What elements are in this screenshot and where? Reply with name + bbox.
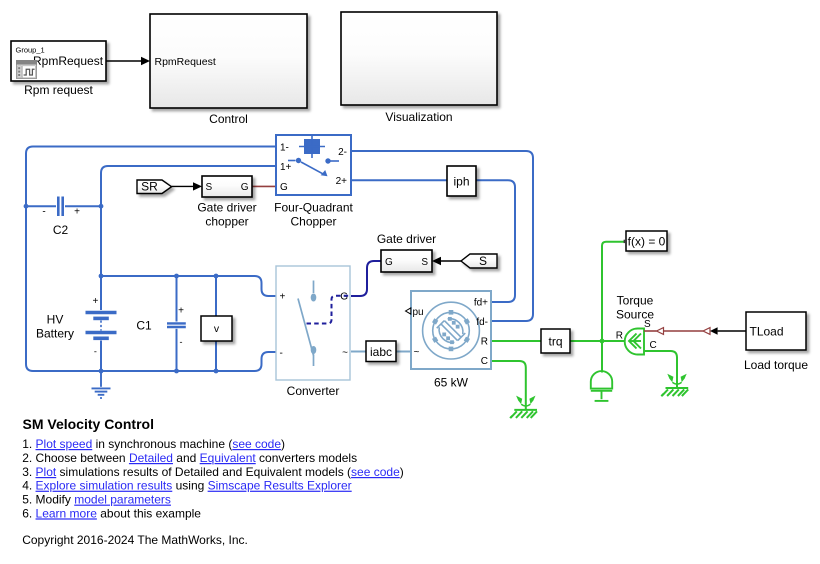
svg-text:+: + [280,292,286,303]
svg-text:v: v [214,323,220,335]
svg-text:S: S [421,257,428,268]
svg-text:-: - [280,348,283,359]
svg-text:R: R [616,331,623,342]
svg-text:G: G [340,292,348,303]
svg-text:RpmRequest: RpmRequest [155,56,216,68]
svg-text:-: - [42,207,45,218]
svg-text:5. Modify model parameters: 5. Modify model parameters [22,493,171,507]
svg-text:+: + [92,296,98,307]
svg-text:S: S [206,182,213,193]
svg-text:S: S [479,254,487,268]
svg-text:Gate driver: Gate driver [197,201,256,215]
svg-text:trq: trq [548,334,562,348]
svg-text:1. Plot speed in synchronous m: 1. Plot speed in synchronous machine (se… [22,437,285,451]
svg-text:RpmRequest: RpmRequest [33,54,104,68]
svg-text:R: R [481,337,488,348]
svg-text:Converter: Converter [287,384,340,398]
svg-text:1-: 1- [280,143,289,154]
svg-text:iabc: iabc [370,345,392,359]
svg-text:+: + [178,306,184,317]
svg-text:G: G [241,182,249,193]
svg-text:iph: iph [453,175,469,189]
svg-text:G: G [385,257,393,268]
svg-text:~: ~ [342,348,348,359]
svg-text:1+: 1+ [280,162,292,173]
svg-text:Load torque: Load torque [744,358,808,372]
svg-text:SM Velocity Control: SM Velocity Control [23,416,154,432]
svg-text:fd-: fd- [476,317,488,328]
svg-text:C1: C1 [136,319,152,333]
svg-text:Battery: Battery [36,327,74,341]
svg-text:Control: Control [209,112,248,126]
svg-text:C: C [650,340,657,351]
svg-text:Source: Source [616,308,654,322]
svg-text:2-: 2- [338,147,347,158]
svg-text:65 kW: 65 kW [434,376,469,390]
svg-text:Chopper: Chopper [290,215,336,229]
svg-text:C2: C2 [53,223,69,237]
svg-text:HV: HV [47,313,64,327]
svg-text:Copyright 2016-2024 The MathWo: Copyright 2016-2024 The MathWorks, Inc. [22,533,248,547]
svg-text:-: - [94,347,97,357]
svg-text:Gate driver: Gate driver [377,232,436,246]
svg-text:SR: SR [141,180,158,194]
svg-text:6. Learn more about this examp: 6. Learn more about this example [22,506,201,520]
svg-text:TLoad: TLoad [750,324,784,338]
svg-text:+: + [74,207,80,218]
svg-text:C: C [481,356,488,367]
svg-text:pu: pu [413,307,424,318]
svg-text:Four-Quadrant: Four-Quadrant [274,201,353,215]
svg-text:-: - [180,337,183,347]
svg-text:fd+: fd+ [474,298,488,309]
svg-text:3. Plot simulations results of: 3. Plot simulations results of Detailed … [22,465,404,479]
svg-text:chopper: chopper [205,215,248,229]
svg-text:~: ~ [414,347,420,358]
svg-text:2. Choose between Detailed and: 2. Choose between Detailed and Equivalen… [22,451,357,465]
svg-text:2+: 2+ [336,176,348,187]
svg-text:f(x) = 0: f(x) = 0 [628,235,666,249]
svg-text:Torque: Torque [617,294,654,308]
svg-text:G: G [280,182,288,193]
svg-text:Rpm request: Rpm request [24,83,93,97]
svg-text:Visualization: Visualization [385,110,452,124]
svg-text:4. Explore simulation results: 4. Explore simulation results using Sims… [22,479,352,493]
